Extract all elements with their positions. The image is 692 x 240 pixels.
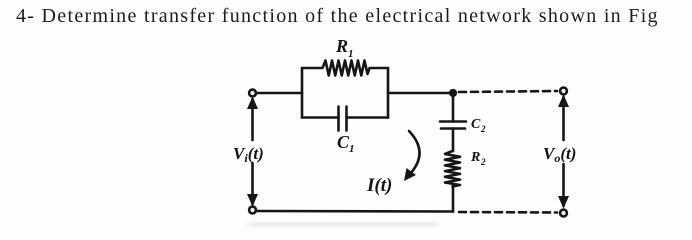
node output bottom terminal	[560, 210, 567, 217]
wire right branch lower	[452, 186, 455, 212]
svg-text:R: R	[335, 36, 348, 56]
wire parallel-box left edge	[301, 68, 304, 118]
arrowhead Vi down	[247, 194, 258, 207]
arrowhead current arc	[404, 168, 416, 181]
faint scan smudge bottom	[248, 222, 438, 227]
arrowhead Vo down	[558, 196, 569, 209]
wire dashed bottom-right	[459, 211, 557, 214]
wire bottom rail	[256, 210, 453, 213]
svg-text:Vi(t): Vi(t)	[233, 144, 264, 165]
svg-text:1: 1	[349, 143, 355, 155]
wire Vi arrow lower segment	[251, 163, 254, 204]
wire top-left horizontal	[256, 92, 302, 95]
wire top mid horizontal	[388, 92, 453, 95]
capacitor C1	[302, 107, 388, 131]
svg-text:R: R	[470, 150, 480, 165]
arrowhead Vo up	[558, 95, 569, 108]
svg-text:Vo(t): Vo(t)	[543, 144, 576, 165]
junction dot top	[449, 89, 457, 97]
svg-text:I(t): I(t)	[366, 175, 392, 196]
capacitor C2	[440, 122, 466, 129]
wire dashed top-right	[459, 91, 557, 92]
wire Vo arrow upper segment	[562, 97, 565, 140]
svg-text:2: 2	[480, 157, 486, 167]
wire right branch mid	[452, 129, 455, 152]
wire Vo arrow lower segment	[562, 164, 565, 206]
node input bottom terminal	[249, 207, 256, 214]
resistor R2	[445, 151, 460, 187]
node input top terminal	[249, 90, 256, 97]
arrowhead Vi up	[247, 97, 258, 110]
resistor R1	[302, 61, 388, 76]
wire parallel-box right edge	[387, 68, 390, 118]
svg-text:1: 1	[348, 48, 354, 60]
wire right branch upper	[452, 93, 455, 122]
current arrow i(t) arc	[409, 131, 420, 175]
title text	[16, 5, 659, 28]
svg-text:C: C	[471, 117, 481, 132]
wire Vi arrow upper segment	[251, 99, 254, 140]
node output top terminal	[560, 88, 567, 95]
svg-text:2: 2	[480, 124, 486, 134]
